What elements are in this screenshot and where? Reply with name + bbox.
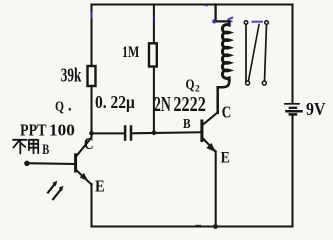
svg-text:E: E	[95, 177, 105, 196]
svg-text:2222: 2222	[173, 94, 205, 116]
svg-text:1M: 1M	[122, 44, 139, 61]
svg-text:39k: 39k	[61, 65, 82, 86]
svg-text:B: B	[42, 142, 49, 158]
svg-text:2: 2	[195, 85, 200, 95]
svg-text:C: C	[222, 103, 232, 122]
svg-text:100: 100	[49, 121, 75, 140]
svg-text:0. 22μ: 0. 22μ	[95, 92, 135, 112]
svg-text:B: B	[183, 116, 191, 131]
svg-text:C: C	[84, 134, 94, 153]
svg-text:2N: 2N	[154, 94, 171, 116]
svg-text:9V: 9V	[306, 99, 326, 119]
svg-text:E: E	[221, 150, 230, 167]
svg-text:Q: Q	[186, 77, 195, 93]
svg-text:Q: Q	[55, 99, 64, 115]
svg-text:PPT: PPT	[20, 121, 47, 140]
